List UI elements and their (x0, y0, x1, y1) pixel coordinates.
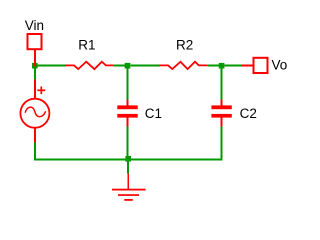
capacitor C1 bottom pin (127, 118, 129, 127)
wire C1 to bottom rail (127, 126, 129, 160)
capacitor C1 bottom plate (117, 114, 137, 118)
capacitor C1 top pin (127, 100, 129, 106)
node B junction (125, 63, 131, 69)
capacitor C1 top plate (117, 105, 137, 109)
node C junction (219, 63, 225, 69)
wire pin Vin to node A (34, 50, 36, 67)
svg-text:Vo: Vo (272, 58, 288, 73)
wire node A to source (34, 68, 36, 80)
ground bar 1 (112, 189, 146, 191)
resistor R2 (160, 62, 208, 69)
pin wire to Vo port (242, 64, 253, 66)
capacitor C2 top plate (211, 105, 231, 109)
svg-text:R2: R2 (176, 37, 193, 52)
wire R1 to node B (113, 64, 125, 66)
source VG1 top pin (34, 80, 36, 99)
node D junction on rail (125, 156, 131, 162)
svg-text:R1: R1 (78, 37, 95, 52)
ground bar 2 (118, 194, 139, 196)
wire C2 to bottom rail (221, 126, 223, 160)
wire node C to Vo port (225, 64, 242, 66)
resistor R1 (65, 62, 113, 69)
ground bar 3 (124, 199, 133, 201)
wire source to bottom rail (34, 143, 36, 161)
ground pin (127, 174, 129, 190)
source VG1 bottom pin (34, 128, 36, 143)
wire node A to R1 (36, 64, 66, 66)
svg-text:C1: C1 (145, 106, 162, 121)
capacitor C2 top pin (221, 100, 223, 106)
svg-text:Vin: Vin (25, 18, 44, 33)
wire node D to ground (127, 162, 129, 174)
capacitor C2 bottom plate (211, 114, 231, 118)
svg-text:C2: C2 (240, 106, 257, 121)
source VG1 circle (20, 99, 49, 128)
capacitor C2 bottom pin (221, 118, 223, 127)
wire node C down to C2 (221, 68, 223, 100)
wire node B to R2 (130, 64, 160, 66)
wire bottom rail (34, 159, 223, 161)
port Vin (28, 34, 42, 49)
wire R2 to node C (207, 64, 219, 66)
source VG1 sine wave (25, 107, 45, 116)
source VG1 plus sign (37, 87, 45, 95)
port Vo (254, 58, 268, 73)
node A junction (32, 63, 38, 69)
wire node B down to C1 (127, 68, 129, 100)
